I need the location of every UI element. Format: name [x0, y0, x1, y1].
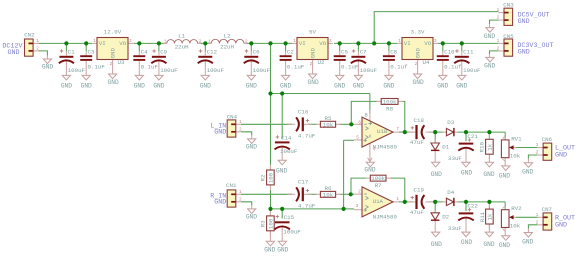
svg-text:U2: U2	[318, 59, 325, 66]
svg-text:C17: C17	[298, 179, 309, 186]
svg-text:C18: C18	[414, 117, 425, 124]
svg-text:R2: R2	[260, 174, 267, 181]
svg-text:R11: R11	[479, 211, 486, 222]
svg-text:10k: 10k	[510, 153, 521, 160]
svg-text:C11: C11	[463, 48, 474, 55]
svg-text:2: 2	[536, 151, 539, 156]
svg-text:GND: GND	[483, 241, 494, 248]
svg-text:NJM4580: NJM4580	[373, 144, 398, 151]
svg-text:CN3: CN3	[503, 1, 514, 8]
svg-text:47uF: 47uF	[410, 209, 424, 216]
svg-text:GND: GND	[277, 247, 288, 254]
svg-text:GND: GND	[499, 242, 510, 249]
svg-text:GND: GND	[413, 79, 424, 86]
svg-text:2: 2	[36, 47, 39, 52]
svg-text:GND: GND	[484, 33, 495, 40]
svg-text:5: 5	[356, 136, 359, 141]
svg-text:GND: GND	[276, 167, 287, 174]
svg-text:47uF: 47uF	[410, 139, 424, 146]
svg-text:0.1uF: 0.1uF	[88, 64, 106, 71]
svg-text:10k: 10k	[323, 191, 334, 198]
svg-text:U3: U3	[118, 59, 125, 66]
svg-text:GND: GND	[431, 241, 442, 248]
svg-text:GND: GND	[414, 48, 421, 59]
svg-text:C15: C15	[284, 214, 295, 221]
svg-text:C14: C14	[281, 134, 292, 141]
svg-text:C3: C3	[88, 48, 95, 55]
svg-text:GND: GND	[518, 18, 530, 26]
svg-text:4.7uF: 4.7uF	[298, 132, 316, 139]
svg-text:C22: C22	[467, 203, 478, 210]
svg-text:CN2: CN2	[24, 32, 35, 39]
svg-text:GND: GND	[522, 169, 533, 176]
svg-text:3.3V: 3.3V	[411, 28, 425, 35]
svg-text:CN5: CN5	[503, 33, 514, 40]
svg-text:2: 2	[536, 220, 539, 225]
svg-text:100: 100	[267, 218, 274, 229]
svg-text:GND: GND	[214, 199, 226, 207]
svg-text:1k: 1k	[486, 213, 493, 220]
svg-text:1: 1	[396, 197, 399, 202]
svg-text:GND: GND	[264, 247, 275, 254]
svg-text:100uF: 100uF	[360, 67, 378, 74]
svg-text:R5: R5	[325, 115, 332, 122]
svg-text:GND: GND	[484, 63, 495, 70]
svg-text:CN7: CN7	[542, 206, 553, 213]
svg-text:CN4: CN4	[227, 114, 238, 121]
svg-text:C21: C21	[467, 133, 478, 140]
svg-text:VI: VI	[99, 40, 106, 47]
svg-text:GND: GND	[499, 172, 510, 179]
svg-text:100uF: 100uF	[283, 229, 301, 236]
svg-text:1: 1	[239, 190, 242, 195]
svg-text:100uF: 100uF	[253, 67, 271, 74]
svg-text:12.0V: 12.0V	[104, 28, 122, 35]
svg-text:GND: GND	[431, 171, 442, 178]
svg-text:33uF: 33uF	[448, 225, 462, 232]
svg-text:1: 1	[536, 143, 539, 148]
svg-text:33uF: 33uF	[448, 155, 462, 162]
svg-text:GND: GND	[134, 83, 145, 90]
svg-text:1: 1	[36, 39, 39, 44]
svg-text:RV1: RV1	[511, 135, 522, 142]
svg-text:GND: GND	[109, 48, 116, 59]
svg-text:U1B: U1B	[377, 128, 388, 135]
svg-text:R3: R3	[260, 220, 267, 227]
svg-text:100uF: 100uF	[68, 67, 86, 74]
svg-text:1: 1	[497, 39, 500, 44]
svg-text:C9: C9	[160, 48, 167, 55]
svg-text:0.1uF: 0.1uF	[141, 64, 159, 71]
svg-text:C4: C4	[141, 48, 148, 55]
svg-text:1k: 1k	[486, 143, 493, 150]
svg-text:GND: GND	[437, 83, 448, 90]
svg-text:CN6: CN6	[542, 136, 553, 143]
svg-text:GND: GND	[214, 129, 226, 137]
svg-text:C1: C1	[68, 48, 75, 55]
svg-text:2: 2	[415, 62, 418, 67]
svg-text:22uH: 22uH	[175, 44, 189, 51]
svg-text:100uF: 100uF	[463, 67, 481, 74]
svg-text:C6: C6	[253, 48, 260, 55]
svg-text:GND: GND	[555, 152, 567, 160]
svg-text:C19: C19	[414, 187, 425, 194]
svg-text:R6: R6	[325, 185, 332, 192]
svg-text:3: 3	[129, 39, 132, 44]
svg-text:0.1uF: 0.1uF	[341, 64, 359, 71]
svg-text:4.7uF: 4.7uF	[298, 202, 316, 209]
svg-text:GND: GND	[518, 49, 530, 57]
svg-text:1: 1	[93, 39, 96, 44]
svg-text:GND: GND	[309, 48, 316, 59]
svg-text:8: 8	[364, 111, 368, 118]
svg-text:GND: GND	[461, 239, 472, 246]
svg-text:GND: GND	[334, 83, 345, 90]
svg-text:1: 1	[536, 213, 539, 218]
svg-text:VI: VI	[299, 40, 306, 47]
svg-text:10k: 10k	[510, 222, 521, 229]
svg-text:2: 2	[199, 39, 202, 44]
svg-text:1: 1	[398, 39, 401, 44]
svg-text:C12: C12	[207, 48, 218, 55]
svg-text:D2: D2	[442, 213, 449, 220]
svg-text:R10: R10	[479, 142, 486, 153]
svg-text:22uH: 22uH	[220, 44, 234, 51]
svg-text:3: 3	[434, 39, 437, 44]
svg-text:6: 6	[358, 121, 361, 126]
svg-text:GND: GND	[42, 63, 53, 70]
svg-text:4: 4	[373, 147, 376, 152]
svg-text:GND: GND	[246, 83, 257, 90]
svg-text:GND: GND	[7, 49, 19, 57]
svg-text:L2: L2	[224, 32, 231, 39]
svg-text:GND: GND	[383, 83, 394, 90]
svg-text:GND: GND	[456, 83, 467, 90]
svg-text:GND: GND	[555, 221, 567, 229]
svg-text:GND: GND	[522, 238, 533, 245]
svg-text:2: 2	[110, 62, 113, 67]
svg-text:1: 1	[293, 39, 296, 44]
svg-text:7: 7	[396, 127, 399, 132]
svg-text:GND: GND	[353, 83, 364, 90]
svg-text:100uF: 100uF	[280, 148, 298, 155]
svg-text:GND: GND	[246, 144, 257, 151]
svg-text:C16: C16	[298, 109, 309, 116]
svg-text:0.1uF: 0.1uF	[287, 64, 305, 71]
svg-text:100: 100	[267, 172, 274, 183]
svg-text:1: 1	[497, 8, 500, 13]
svg-text:GND: GND	[483, 171, 494, 178]
svg-text:D4: D4	[447, 189, 454, 196]
svg-text:VO: VO	[119, 40, 126, 47]
svg-text:VI: VI	[404, 40, 411, 47]
svg-text:VO: VO	[319, 40, 326, 47]
svg-text:GND: GND	[246, 214, 257, 221]
svg-text:3: 3	[329, 39, 332, 44]
svg-text:VO: VO	[424, 40, 431, 47]
svg-text:2: 2	[245, 39, 248, 44]
svg-text:GND: GND	[461, 169, 472, 176]
svg-text:GND: GND	[81, 83, 92, 90]
svg-text:GND: GND	[61, 83, 72, 90]
svg-text:5V: 5V	[309, 28, 316, 35]
svg-text:1: 1	[208, 39, 211, 44]
svg-text:GND: GND	[308, 79, 319, 86]
svg-text:GND: GND	[108, 79, 119, 86]
svg-text:1: 1	[164, 39, 167, 44]
svg-text:3: 3	[356, 204, 359, 209]
svg-text:2: 2	[497, 47, 500, 52]
svg-text:0.1uf: 0.1uf	[390, 64, 408, 71]
svg-text:U1A: U1A	[373, 198, 384, 205]
svg-text:C10: C10	[444, 48, 455, 55]
svg-text:0.1uf: 0.1uf	[444, 64, 462, 71]
svg-text:GND: GND	[364, 167, 375, 174]
svg-text:2: 2	[239, 197, 242, 202]
svg-text:2: 2	[497, 16, 500, 21]
svg-text:L1: L1	[178, 32, 185, 39]
svg-text:NJM4580: NJM4580	[373, 213, 398, 220]
svg-text:2: 2	[358, 190, 361, 195]
svg-text:100uF: 100uF	[207, 67, 225, 74]
svg-text:GND: GND	[200, 83, 211, 90]
svg-text:C2: C2	[287, 48, 294, 55]
svg-text:10k: 10k	[323, 121, 334, 128]
svg-text:GND: GND	[280, 83, 291, 90]
svg-text:C5: C5	[341, 48, 348, 55]
svg-text:RV2: RV2	[511, 205, 522, 212]
svg-text:1: 1	[239, 120, 242, 125]
svg-text:GND: GND	[153, 83, 164, 90]
svg-text:100uF: 100uF	[160, 67, 178, 74]
svg-text:R8: R8	[386, 105, 393, 112]
svg-text:2: 2	[310, 62, 313, 67]
svg-text:U4: U4	[423, 59, 430, 66]
svg-text:D1: D1	[442, 144, 449, 151]
svg-text:CN1: CN1	[226, 182, 237, 189]
svg-text:C8: C8	[390, 48, 397, 55]
svg-text:C7: C7	[360, 48, 367, 55]
svg-text:R7: R7	[375, 182, 382, 189]
svg-text:D3: D3	[447, 119, 454, 126]
svg-text:2: 2	[239, 127, 242, 132]
